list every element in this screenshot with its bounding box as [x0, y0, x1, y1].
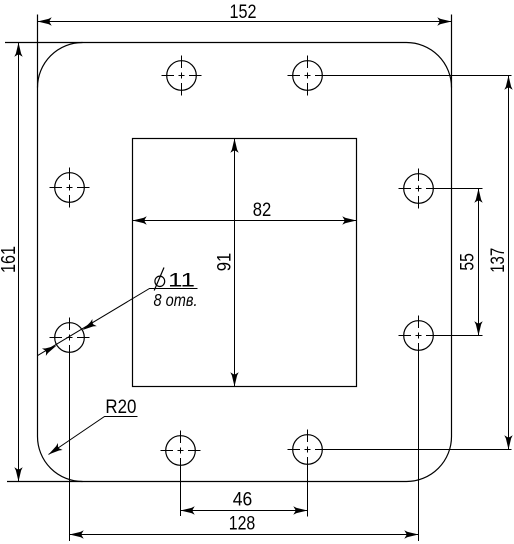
hole H7 centerlines (right extends for 137, bottom extends for 46/128) [288, 430, 512, 517]
plate corner arc top-right R20 [407, 43, 452, 88]
hole note diameter symbol (phi) [154, 268, 165, 291]
plate corner arc bottom-left R20 [38, 437, 83, 482]
svg-text:137: 137 [487, 248, 509, 273]
arrow hole-note leader upper (at hole H5 edge) [80, 319, 96, 334]
arrow 82 right [342, 216, 356, 224]
svg-text:91: 91 [214, 253, 236, 272]
arrow 55 top [474, 189, 482, 203]
hole H8 bottom-left circle [166, 436, 196, 466]
plate outline top edge (extended left as extension line for 161) [5, 42, 407, 44]
svg-text:82: 82 [253, 199, 272, 221]
arrow 128 right [404, 530, 418, 538]
plate outline bottom edge (extended left as extension line for 161) [7, 481, 407, 483]
hole H4 centerlines (right one extends as extension line for 55) [399, 169, 483, 209]
arrow 46 left [181, 506, 195, 514]
arrow 91 bottom [230, 372, 238, 386]
arrow 128 left [70, 530, 84, 538]
arrow 55 bottom [474, 321, 482, 335]
arrow 152 right [437, 17, 451, 25]
arrow 82 left [133, 216, 147, 224]
hole H6 centerlines (right extends for 55, bottom extends for 128) [399, 316, 483, 542]
arrow hole-note leader lower (at hole H5 edge) [42, 342, 58, 356]
svg-text:8 omв.: 8 omв. [154, 290, 198, 310]
hole H4 upper-right circle [404, 174, 434, 204]
hole H7 bottom-right circle [293, 435, 323, 465]
hole H2 centerlines (right one extends as extension line for 137) [288, 56, 512, 96]
leader line for hole note (phi11 8 holes) [38, 289, 198, 356]
hole H5 lower-left circle [55, 323, 85, 353]
svg-text:R20: R20 [105, 396, 136, 418]
hole H1 top-left circle [167, 61, 197, 91]
hole H1 centerlines [162, 56, 202, 96]
plate corner arc bottom-right R20 [407, 437, 452, 482]
leader line for R20 [49, 417, 138, 455]
hole H2 top-right circle [293, 61, 323, 91]
dimension 128 line [70, 534, 419, 536]
hole H5 centerlines (bottom one extends as extension line for 128) [50, 318, 90, 542]
dimension 161 line [18, 43, 20, 482]
arrow 161 bottom [14, 467, 22, 481]
svg-text:161: 161 [0, 246, 20, 273]
hole H6 lower-right circle [404, 321, 434, 351]
arrow 152 left [38, 17, 52, 25]
dimension 55 line [478, 189, 480, 336]
arrow 91 top [230, 139, 238, 153]
plate outline right edge [451, 15, 453, 437]
hole H3 upper-left circle [55, 173, 85, 203]
plate outline left edge [37, 15, 39, 437]
svg-text:128: 128 [229, 512, 256, 534]
arrow 46 right [293, 506, 307, 514]
svg-text:11: 11 [168, 270, 195, 292]
dimension 91 line [234, 139, 236, 387]
dimension 137 line [508, 76, 510, 450]
arrow R20 leader [46, 443, 62, 458]
hole H3 centerlines [50, 168, 90, 208]
svg-text:46: 46 [233, 489, 253, 510]
hole H8 centerlines (bottom extends as extension line for 46) [161, 431, 201, 517]
dimension 152 line [38, 21, 452, 23]
dimension 46 line [181, 510, 308, 512]
arrow 137 bottom [504, 435, 512, 449]
inner rectangular cutout 82x91 [133, 139, 357, 387]
plate corner arc top-left R20 [38, 43, 83, 88]
svg-text:55: 55 [457, 253, 479, 271]
dimension 82 line [133, 220, 357, 222]
arrow 137 top [504, 76, 512, 90]
svg-text:152: 152 [230, 1, 257, 23]
arrow 161 top [14, 43, 22, 57]
